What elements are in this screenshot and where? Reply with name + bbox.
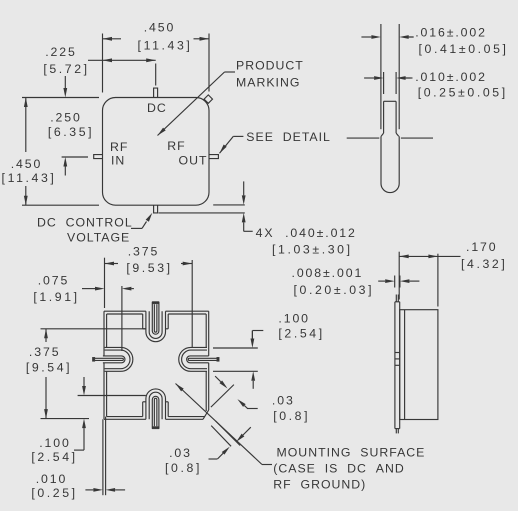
svg-text:MOUNTING SURFACE: MOUNTING SURFACE xyxy=(277,445,426,459)
lead detail: inner pin outline xyxy=(384,100,397,102)
dim .250 [6.35]: top edge extension line xyxy=(22,97,99,99)
svg-text:.170: .170 xyxy=(466,240,498,254)
svg-text:(CASE IS DC AND: (CASE IS DC AND xyxy=(273,461,404,475)
svg-text:.010: .010 xyxy=(36,472,68,486)
bottom view: bottom lead xyxy=(152,396,159,428)
svg-text:[5.72]: [5.72] xyxy=(43,62,89,76)
leader: DC CONTROL VOLTAGE arrow xyxy=(131,227,142,229)
svg-text:.100: .100 xyxy=(278,311,310,325)
dim .170 [4.32]: dimension line + arrows xyxy=(399,255,438,257)
svg-text:SEE DETAIL: SEE DETAIL xyxy=(246,130,331,144)
bottom view: right lead xyxy=(187,356,209,363)
dim .450 [11.43] top: dimension line + arrows xyxy=(103,38,122,40)
svg-text:.250: .250 xyxy=(50,111,82,125)
svg-text:[9.54]: [9.54] xyxy=(26,361,72,375)
dim .03 upper: leader arrow xyxy=(237,399,245,407)
svg-text:[2.54]: [2.54] xyxy=(31,450,77,464)
bottom view: top lead xyxy=(152,302,159,334)
svg-text:DC CONTROL: DC CONTROL xyxy=(37,216,133,230)
top view: RF OUT pin stub (right) xyxy=(209,155,218,159)
svg-text:DC: DC xyxy=(147,101,167,115)
svg-text:.450: .450 xyxy=(11,157,43,171)
dim .03 lower: arrow SW pointing NE + leader xyxy=(222,447,230,455)
bottom view: outer outline top edge xyxy=(104,310,146,312)
dim 4X .040: extension line at pin tip xyxy=(159,212,245,214)
side view: bottom lead tip xyxy=(395,429,397,434)
svg-text:.03: .03 xyxy=(272,393,295,407)
top view: RF IN pin stub (left) xyxy=(94,155,103,159)
side view: mounting plate xyxy=(394,302,396,429)
svg-text:.375: .375 xyxy=(128,244,160,258)
dim .250 [6.35]: pin level extension line xyxy=(62,156,88,158)
bottom view: top slot outer U xyxy=(146,311,166,342)
dim .008 [0.20]: arrows outside xyxy=(385,279,395,283)
svg-text:.225: .225 xyxy=(45,45,77,59)
svg-text:RF: RF xyxy=(110,140,128,154)
dim .225 [5.72]: dimension line + arrows xyxy=(88,59,156,61)
svg-text:[0.41±0.05]: [0.41±0.05] xyxy=(419,42,509,56)
lead detail: case wall section line left xyxy=(347,137,380,139)
bottom view: left lead xyxy=(103,356,125,363)
svg-text:PRODUCT: PRODUCT xyxy=(236,58,304,72)
dim .375 [9.53] top: extension lines xyxy=(104,258,106,308)
bottom view: right slot inner U xyxy=(182,350,207,369)
leader: SEE DETAIL arrow xyxy=(220,144,227,153)
dim .100 [2.54] right: extension lines xyxy=(213,347,258,349)
dim .450 [11.43] left: bottom extension line xyxy=(22,204,99,206)
top view: product marking diamond at corner xyxy=(204,95,212,103)
dim .03 upper: arrow xyxy=(219,380,227,388)
dim .250 [6.35]: arrows outside xyxy=(63,88,67,98)
svg-text:.075: .075 xyxy=(38,274,70,288)
side view: case lip line xyxy=(404,310,406,420)
svg-text:[0.25±0.05]: [0.25±0.05] xyxy=(418,86,508,100)
top view: DC pin stub (top) xyxy=(154,88,158,97)
dim .100 [2.54] right: arrows outside + bent leader xyxy=(251,339,255,349)
svg-text:[6.35]: [6.35] xyxy=(48,125,94,139)
dim .170 [4.32]: extension lines xyxy=(398,252,400,300)
dim 4X .040: arrows outside xyxy=(242,195,246,205)
svg-text:.03: .03 xyxy=(169,446,192,460)
svg-text:.008±.001: .008±.001 xyxy=(292,266,364,280)
svg-text:[1.91]: [1.91] xyxy=(33,290,79,304)
svg-text:VOLTAGE: VOLTAGE xyxy=(67,231,130,245)
svg-text:[0.8]: [0.8] xyxy=(165,461,202,475)
dim .03 lower: arrow NE pointing SW xyxy=(236,434,244,442)
side view: case body xyxy=(400,310,438,420)
bottom view: outer outline bottom edge xyxy=(104,418,146,420)
svg-text:[1.03±.30]: [1.03±.30] xyxy=(272,242,353,256)
dim .450 [11.43] top: extension lines xyxy=(102,34,104,93)
bottom view: top slot inner U xyxy=(149,311,162,338)
bottom view: bottom slot notch xyxy=(142,402,144,417)
dim .225 [5.72]: pin center extension line xyxy=(155,64,157,86)
dim .03 upper: dimension line across slot chamfer xyxy=(211,385,234,408)
dim .075 [1.91]: arrows xyxy=(95,287,105,291)
dim .008 [0.20]: extension ticks xyxy=(394,276,396,288)
svg-text:[9.53]: [9.53] xyxy=(126,261,172,275)
bottom view: bottom slot outer U xyxy=(146,389,166,419)
dim .010 [0.25]: wall extension lines xyxy=(102,419,104,495)
svg-text:MARKING: MARKING xyxy=(236,76,300,90)
svg-text:[0.25]: [0.25] xyxy=(31,486,77,500)
svg-text:[11.43]: [11.43] xyxy=(2,171,57,185)
dim .010: arrows xyxy=(374,76,384,80)
svg-text:.450: .450 xyxy=(144,21,176,35)
dim .100 [2.54] left: leader elbow xyxy=(74,449,84,451)
dim .075 [1.91]: extension line xyxy=(121,286,123,351)
svg-text:OUT: OUT xyxy=(179,154,208,168)
chamfer extension line upper-end xyxy=(216,421,241,446)
dim .100 [2.54] left: extension line at lead tip xyxy=(78,395,146,397)
svg-text:.010±.002: .010±.002 xyxy=(415,70,487,84)
leader: PRODUCT MARKING arrow xyxy=(158,128,166,136)
svg-text:[0.8]: [0.8] xyxy=(273,409,310,423)
top view: DC control pin stub (bottom) xyxy=(154,205,158,213)
bottom view: outer outline right edge xyxy=(208,311,210,356)
svg-text:.100: .100 xyxy=(39,436,71,450)
svg-text:[11.43]: [11.43] xyxy=(138,38,193,52)
dim .375 [9.53] top: dimension line + arrows xyxy=(105,263,119,265)
svg-text:[2.54]: [2.54] xyxy=(278,327,324,341)
bottom view: top slot notch xyxy=(142,314,144,329)
side view: top lead tip xyxy=(395,295,397,302)
svg-text:RF: RF xyxy=(167,139,185,153)
svg-text:.016±.002: .016±.002 xyxy=(415,26,487,40)
svg-text:IN: IN xyxy=(111,154,125,168)
leader: MOUNTING SURFACE arrow and line xyxy=(176,384,184,392)
bottom view: corner chamfer xyxy=(203,410,209,419)
lead detail: inner width ticks (.010) xyxy=(383,72,385,94)
bottom view: outer outline left edge xyxy=(103,311,105,356)
svg-text:4X .040±.012: 4X .040±.012 xyxy=(256,226,357,240)
dim .450 [11.43] left: dimension line + arrows xyxy=(25,98,27,153)
svg-text:[0.20±.03]: [0.20±.03] xyxy=(294,283,375,297)
bottom view: left slot outer U xyxy=(105,347,133,371)
bottom view: inner outline left edge xyxy=(106,314,108,347)
lead detail: outer lead sides (.016 wide) xyxy=(380,24,382,129)
dim .010 [0.25]: arrows outside xyxy=(93,488,103,492)
bottom view: inner outline top edge xyxy=(107,313,143,315)
svg-text:.375: .375 xyxy=(29,345,61,359)
side view: lead marks on plate xyxy=(395,352,400,354)
svg-text:[4.32]: [4.32] xyxy=(461,257,507,271)
dim 4X .040: leader elbow xyxy=(244,230,253,232)
bottom view: bottom slot inner U xyxy=(149,392,162,419)
dim .375 [9.54] left: dimension line + arrows xyxy=(45,329,47,342)
dim .016: arrows xyxy=(371,35,381,39)
dim .375 [9.54] left: extension lines xyxy=(41,328,146,330)
bottom view: left slot inner U xyxy=(105,350,130,369)
chamfer extension line lower-end xyxy=(211,426,231,447)
bottom view: inner outline right edge xyxy=(205,314,207,347)
svg-text:RF GROUND): RF GROUND) xyxy=(273,477,366,491)
dim .100 [2.54] left: arrows outside xyxy=(82,386,86,396)
lead detail: case wall section line right xyxy=(401,137,433,139)
dim 4X .040: extension line at case bottom xyxy=(213,204,245,206)
top view: package body outline xyxy=(103,98,210,206)
bottom view: inner outline bottom edge xyxy=(107,416,143,418)
bottom view: right slot outer U xyxy=(179,347,207,371)
lead detail: glass capsule body xyxy=(381,136,399,192)
